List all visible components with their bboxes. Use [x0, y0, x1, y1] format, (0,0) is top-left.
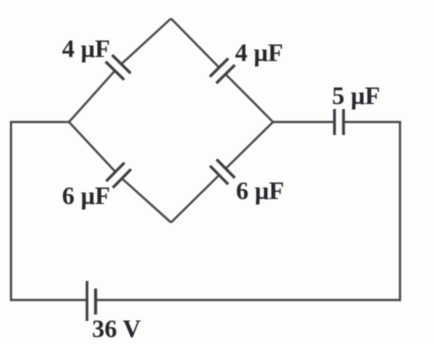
label 4 uF top-left — [62, 36, 110, 64]
label 4 uF top-right — [235, 40, 283, 68]
capacitor C 6uF bottom-left plates — [106, 163, 131, 188]
wire: bottom-right capacitor to bottom vertex — [171, 175, 219, 222]
wire: top-left capacitor to top vertex — [121, 19, 171, 65]
label 6 uF bottom-right — [236, 178, 284, 206]
capacitor C 6uF bottom-right plates — [210, 159, 235, 184]
wire: top-right capacitor to right vertex — [226, 74, 274, 122]
label 36 V — [92, 316, 141, 344]
wire: top vertex to top-right capacitor — [171, 19, 219, 68]
battery 36V plates — [87, 281, 96, 321]
wire: battery to bottom-right corner and up right rail — [96, 122, 400, 300]
capacitor C 5uF plates — [335, 109, 344, 135]
wire: bottom-left capacitor to bottom vertex — [122, 178, 171, 222]
wire: left vertex to top-left capacitor — [69, 71, 115, 122]
capacitor C 4uF top-right plates — [210, 58, 235, 83]
wire: right vertex to bottom-right capacitor — [226, 122, 273, 169]
label 6 uF bottom-left — [62, 183, 110, 211]
wire: left vertex to bottom-left capacitor — [69, 122, 115, 172]
capacitor C 4uF top-left plates — [106, 55, 131, 80]
label 5 uF — [332, 83, 380, 111]
wire: left vertex to outer left rail — [11, 122, 87, 300]
wire: 5uF capacitor to right vertex — [273, 121, 335, 123]
